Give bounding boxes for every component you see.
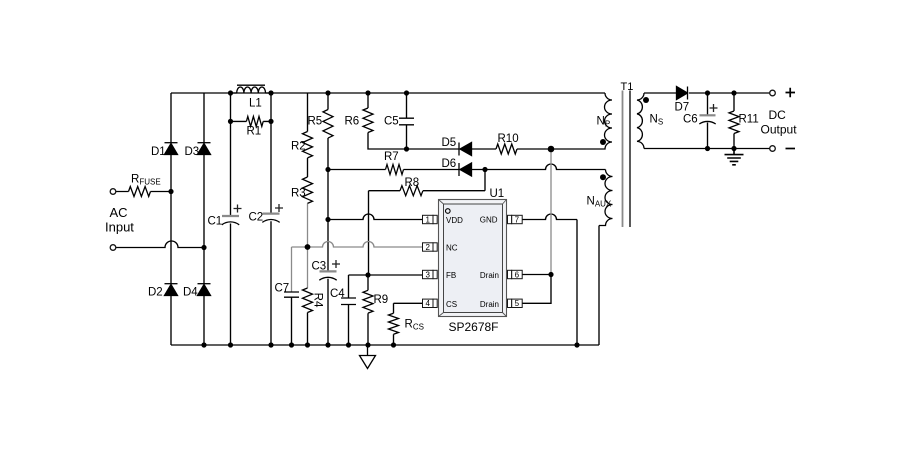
wire Naux return: [598, 226, 600, 346]
transformer winding Naux: [599, 170, 613, 226]
transformer winding Ns: [637, 93, 644, 149]
wire AC upper lead: [116, 191, 171, 193]
wire VDD pin1 with hop over R8 branch: [328, 214, 423, 220]
capacitor C5 plates: [399, 118, 414, 125]
terminal DC plus: [770, 90, 776, 96]
wire D3 column: [203, 93, 205, 345]
svg-text:C7: C7: [275, 283, 290, 295]
terminal AC upper: [110, 189, 116, 195]
wire C5 column: [406, 93, 408, 149]
wire NC pin2 gray line with hops over C3 column and R8 branch: [292, 242, 423, 248]
junction dots D5 line: [404, 146, 409, 151]
svg-text:NS: NS: [650, 114, 664, 127]
wire C7 bottom lead: [291, 297, 293, 345]
svg-text:Output: Output: [761, 123, 798, 137]
svg-text:C3: C3: [312, 261, 327, 273]
wire C4 branch: [348, 275, 350, 345]
junction dot drain node: [548, 272, 553, 277]
IC U1 body inner: [444, 204, 503, 313]
wire gray drop to C7: [291, 247, 293, 292]
svg-text:C1: C1: [208, 216, 223, 228]
junction dot R7 left: [325, 167, 330, 172]
plus sign DC output: [786, 88, 796, 97]
pin box 7: [508, 215, 512, 223]
svg-text:Drain: Drain: [480, 271, 499, 280]
svg-text:NC: NC: [446, 244, 458, 253]
junction dot RFUSE node: [168, 189, 173, 194]
svg-text:7: 7: [515, 215, 520, 224]
svg-text:R5: R5: [308, 116, 323, 128]
diode D1: [165, 142, 178, 144]
svg-text:2: 2: [425, 243, 430, 252]
resistor R5: [323, 110, 333, 139]
wire R9 branch: [367, 275, 369, 345]
plus sign C3: [332, 260, 340, 268]
wire R8 branch: [369, 170, 486, 276]
wire gray segment R3 to R4: [307, 204, 309, 289]
wire R1 leads: [231, 120, 272, 122]
junction dot NC node: [305, 244, 311, 250]
IC U1 bevel corners: [439, 200, 507, 317]
svg-text:D7: D7: [675, 102, 690, 114]
svg-text:AC: AC: [110, 205, 128, 220]
resistor RFUSE: [129, 187, 151, 197]
svg-text:C4: C4: [330, 288, 345, 300]
resistor R1: [246, 116, 263, 126]
junction dots output: [705, 90, 710, 95]
pin box 1: [423, 215, 434, 223]
phase dot Np: [600, 139, 606, 145]
svg-text:DC: DC: [769, 108, 787, 122]
svg-text:D6: D6: [442, 158, 457, 170]
svg-text:Input: Input: [105, 220, 134, 235]
junction dot VDD node: [325, 217, 330, 222]
svg-text:6: 6: [515, 270, 520, 279]
inductor L1 core bar: [237, 84, 265, 86]
capacitor C1 bottom plate: [222, 222, 239, 225]
resistor R8: [400, 186, 423, 196]
wire R7 D6 line: [328, 169, 485, 171]
terminal AC lower: [110, 245, 116, 251]
wire Drain pin6: [522, 274, 552, 276]
svg-text:D4: D4: [183, 287, 198, 299]
wire D5 anode to R10 to node: [472, 148, 552, 150]
WIRES-BLACK: [116, 93, 770, 345]
capacitor C2 bottom plate: [262, 220, 279, 223]
svg-text:R10: R10: [498, 133, 519, 145]
pin box 2: [423, 243, 434, 251]
wire C1 column: [230, 93, 232, 345]
junction dot FB node: [365, 272, 370, 277]
resistor R3: [303, 177, 313, 203]
capacitor C7 plates: [284, 292, 299, 297]
svg-text:D5: D5: [442, 137, 457, 149]
plus sign C1: [234, 205, 242, 213]
wire R11 leads: [733, 93, 735, 149]
diode D7: [687, 87, 689, 100]
diode D2: [165, 283, 178, 285]
svg-text:R4: R4: [312, 293, 324, 308]
ground chassis triangle: [360, 345, 376, 369]
svg-text:R9: R9: [374, 294, 389, 306]
svg-text:R11: R11: [739, 114, 759, 126]
wire D1 column: [170, 93, 172, 345]
svg-text:U1: U1: [490, 188, 505, 200]
wire Ns top to D7 and output plus terminal: [644, 92, 770, 94]
resistor R2: [303, 132, 313, 158]
resistor R7: [386, 165, 404, 175]
wire FB pin3 line: [349, 274, 423, 276]
wire L1 leads: [231, 92, 272, 94]
WIRES-GRAY: [292, 149, 552, 292]
transformer T1 core primary line: [622, 91, 624, 228]
svg-text:Drain: Drain: [480, 300, 499, 309]
wire R5 C3 column: [327, 93, 329, 345]
resistor R11: [729, 111, 739, 133]
svg-text:1: 1: [425, 215, 430, 224]
wire GND pin7 with hop over node column: [522, 214, 578, 345]
plus sign C6: [710, 104, 718, 112]
svg-text:GND: GND: [480, 216, 498, 225]
wire top rail: [171, 92, 605, 94]
junction dots bottom rail: [201, 342, 206, 347]
capacitor C1 top plate polarized: [222, 215, 239, 217]
junction dot AC lower node: [201, 245, 206, 250]
diode D4: [198, 283, 211, 285]
wire D6 node to Naux with hop over node column: [485, 164, 606, 170]
resistor R4: [303, 288, 313, 313]
svg-text:RFUSE: RFUSE: [131, 174, 161, 187]
wire C6 leads: [707, 93, 709, 149]
capacitor C4 plates: [341, 298, 356, 305]
svg-text:D3: D3: [185, 146, 200, 158]
wire R6 to D5 line: [368, 93, 459, 149]
svg-text:3: 3: [425, 270, 430, 279]
capacitor C6 top plate polarized: [700, 114, 716, 116]
capacitor C2 top plate polarized: [263, 213, 280, 215]
svg-text:R6: R6: [345, 116, 360, 128]
capacitor C3 top plate polarized: [320, 270, 337, 272]
svg-text:C5: C5: [384, 116, 399, 128]
wire Ns bottom to output minus terminal: [644, 148, 770, 150]
svg-text:R1: R1: [247, 126, 262, 138]
svg-text:T1: T1: [621, 81, 634, 93]
pin box 4: [423, 299, 434, 307]
svg-text:CS: CS: [446, 300, 457, 309]
wire Drain pin5: [522, 275, 552, 304]
wire bottom ground rail: [171, 344, 599, 346]
svg-text:FB: FB: [446, 271, 456, 280]
transformer winding Np: [551, 93, 612, 149]
svg-text:VDD: VDD: [446, 216, 463, 225]
ground earth under R11: [725, 149, 744, 165]
svg-text:C2: C2: [249, 212, 264, 224]
svg-text:4: 4: [425, 299, 430, 308]
junction dots top rail: [228, 90, 233, 95]
svg-text:R7: R7: [384, 151, 399, 163]
terminal DC minus: [770, 146, 776, 152]
wire node column gray: [550, 149, 552, 275]
svg-text:NP: NP: [597, 116, 611, 129]
svg-text:R8: R8: [405, 177, 420, 189]
phase dot Naux: [600, 174, 606, 180]
capacitor C3 bottom plate: [319, 277, 336, 280]
wire R2 R3 column upper: [307, 93, 309, 177]
svg-text:D1: D1: [151, 146, 166, 158]
transformer T1 core secondary line: [629, 91, 631, 228]
plus sign C2: [275, 204, 283, 212]
resistor RCS: [389, 313, 399, 334]
junction dot D6 node: [482, 167, 487, 172]
diode D3: [198, 142, 211, 144]
svg-text:R2: R2: [291, 141, 306, 153]
diode D5: [458, 143, 460, 156]
resistor R9: [363, 290, 373, 313]
svg-text:5: 5: [515, 299, 520, 308]
IC U1 body outer: [439, 200, 507, 317]
resistor R6: [363, 108, 373, 133]
svg-text:SP2678F: SP2678F: [448, 320, 498, 334]
minus sign DC output: [786, 148, 796, 150]
pin box 3: [423, 270, 434, 278]
pin box 5: [508, 299, 512, 307]
svg-text:L1: L1: [249, 98, 262, 110]
svg-text:R3: R3: [291, 188, 306, 200]
resistor R10: [496, 144, 517, 154]
diode D6: [458, 163, 460, 176]
IC U1 pin1 indicator circle: [446, 209, 451, 214]
junction dots R1: [228, 119, 233, 124]
svg-text:RCS: RCS: [405, 319, 424, 332]
wire R4 column lower: [307, 313, 309, 346]
wire C2 column: [270, 93, 272, 345]
wire CS pin4 to RCS: [394, 303, 423, 345]
svg-text:NAUX: NAUX: [587, 196, 612, 209]
inductor L1: [237, 87, 266, 93]
wire AC lower lead with hop over D1 column: [116, 241, 204, 248]
capacitor C6 bottom plate: [699, 121, 715, 124]
svg-text:D2: D2: [148, 287, 163, 299]
pin box 6: [508, 270, 512, 278]
phase dot Ns: [643, 97, 649, 103]
svg-text:C6: C6: [683, 114, 698, 126]
